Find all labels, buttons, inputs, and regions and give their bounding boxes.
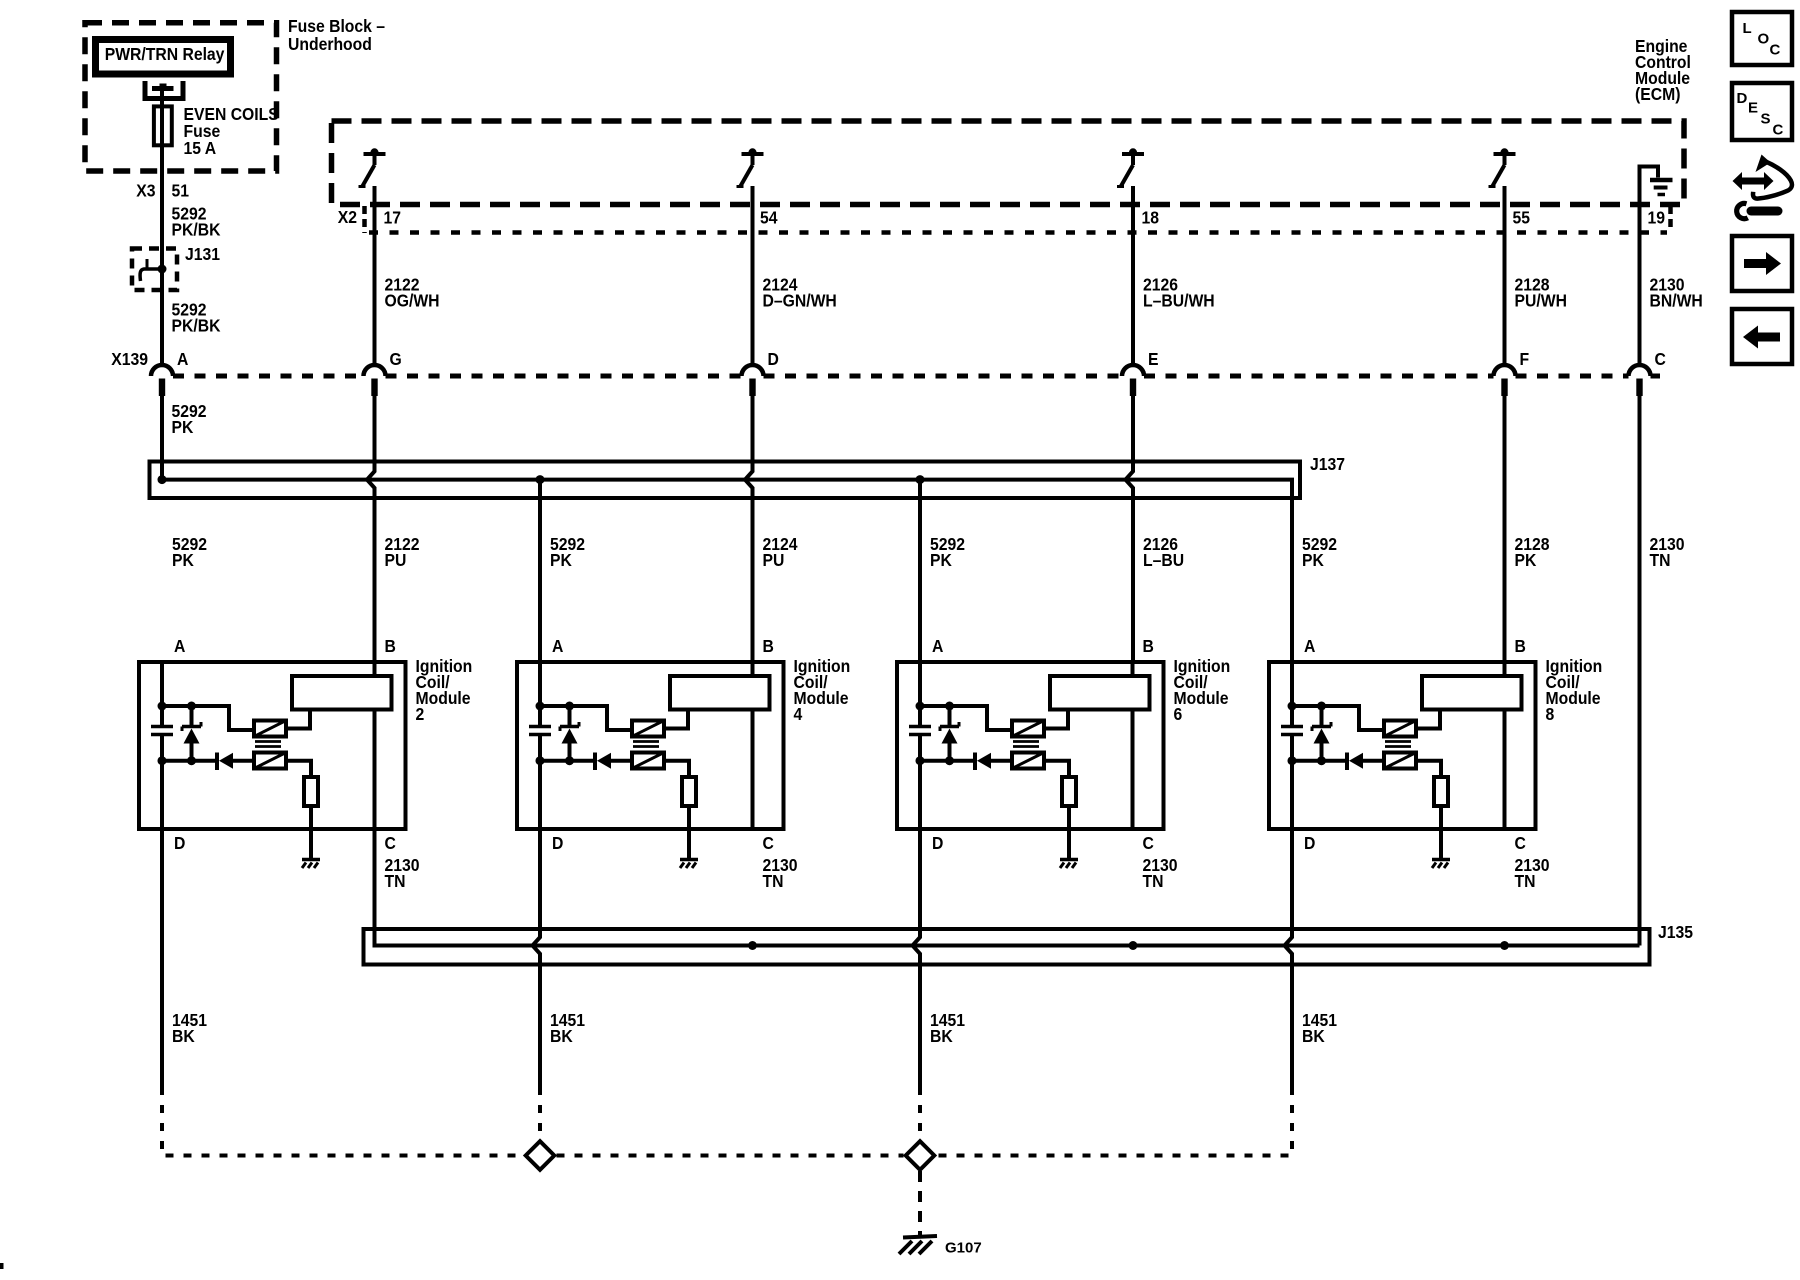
svg-text:PK: PK (930, 550, 952, 570)
svg-text:TN: TN (385, 871, 406, 891)
svg-text:B: B (1515, 636, 1526, 656)
wire pin B stub module 4 (751, 662, 755, 676)
svg-text:B: B (763, 636, 774, 656)
wire box2 to resistor module 4 (664, 761, 689, 777)
svg-text:A: A (174, 636, 185, 656)
dashed wire 1451 BK module 6 to splice diamond (918, 1087, 922, 1140)
svg-text:D–GN/WH: D–GN/WH (763, 291, 837, 311)
wire crossing J137 with hop at x=374.5 (367, 396, 375, 662)
sidebar wrench icon (1751, 207, 1778, 216)
ECM internal ground at pin 19 (1640, 167, 1659, 233)
dashed wire 1451 BK module 2 to splice diamond (162, 1087, 524, 1156)
svg-text:PK/BK: PK/BK (172, 220, 221, 240)
wire resistor to chassis ground module 6 (1067, 806, 1071, 858)
wire crossing J137 with hop at x=1133 (1126, 396, 1134, 662)
wire pin A internal segment module 6 (918, 662, 922, 727)
svg-text:C: C (1770, 42, 1781, 59)
resistor module 4 (682, 777, 696, 806)
wire top rail module 4 (540, 706, 632, 730)
svg-text:A: A (177, 349, 188, 369)
wire 1451 BK pin D module 6 through J135 hop (913, 829, 921, 1087)
svg-text:BK: BK (550, 1026, 573, 1046)
fuse holder clip bracket (145, 81, 183, 99)
wire F 2128 from X139 to module 8 pin B (1503, 396, 1507, 662)
connector X2 row dotted line (369, 230, 1667, 235)
wire 5292 PK X139 pin A through J137 (160, 396, 164, 480)
connector X2 left separator tick (362, 206, 367, 233)
wire pin A internal segment module 2 (160, 662, 164, 727)
svg-text:54: 54 (760, 208, 778, 228)
svg-text:B: B (385, 636, 396, 656)
zener diode module 8 (1320, 706, 1324, 727)
wire coil to pin C module 8 (1503, 710, 1507, 830)
wire 2130 BN/WH from ECM ground to X139 pin C (1638, 232, 1642, 365)
wire 1451 BK pin D module 2 through J135 hop (160, 829, 164, 1087)
sidebar DESC button (1732, 83, 1792, 140)
splice pack J135 box (364, 929, 1650, 965)
resistor module 6 (1062, 777, 1076, 806)
gate bars module 4 (633, 740, 659, 743)
svg-text:PWR/TRN Relay: PWR/TRN Relay (105, 44, 225, 64)
svg-text:Fuse Block –: Fuse Block – (288, 16, 385, 36)
wire crossing J137 with hop at x=752.5 (745, 396, 753, 662)
connector X139 pin F terminal bump (1494, 365, 1516, 376)
svg-text:BK: BK (172, 1026, 195, 1046)
capacitor module 6 (909, 725, 931, 729)
svg-text:X2: X2 (338, 207, 357, 227)
relay K (PWR/TRN Relay) (92, 36, 234, 78)
zener diode module 6 (948, 706, 952, 727)
driver stage box 1 module 8 (1384, 721, 1416, 737)
junction dots module 2 (158, 702, 167, 711)
dashed wire to ground G107 (918, 1171, 922, 1235)
svg-text:PK: PK (172, 550, 194, 570)
svg-text:D: D (1304, 833, 1315, 853)
capacitor module 2 (151, 725, 173, 729)
driver stage box 1 module 4 (632, 721, 664, 737)
svg-text:Underhood: Underhood (288, 34, 372, 54)
svg-text:S: S (1761, 110, 1771, 127)
svg-text:A: A (932, 636, 943, 656)
driver stage box 1 module 2 (254, 721, 286, 737)
junction dot J135 module 8 (1500, 941, 1509, 950)
wire pin A internal segment module 4 (538, 662, 542, 727)
svg-text:TN: TN (1143, 871, 1164, 891)
svg-text:X139: X139 (111, 349, 148, 369)
svg-text:PK: PK (550, 550, 572, 570)
splice diamond right (to G107) (906, 1141, 935, 1170)
chassis ground module 2 (302, 858, 320, 862)
wire top rail module 2 (162, 706, 254, 730)
ignition coil secondary box module 8 (1422, 676, 1522, 710)
connector X139 pin G terminal bump (364, 365, 386, 376)
svg-text:J135: J135 (1658, 922, 1693, 942)
svg-text:O: O (1758, 31, 1770, 48)
connector X139 pin A terminal bump (151, 365, 173, 376)
svg-text:8: 8 (1546, 704, 1555, 724)
connector X139 row dotted line (173, 374, 364, 379)
wire resistor to chassis ground module 4 (687, 806, 691, 858)
wire 5292 PK J137 to module 6 pin A (918, 480, 922, 662)
driver stage box 2 module 4 (632, 753, 664, 769)
svg-text:D: D (552, 833, 563, 853)
splice pack J137 box (150, 462, 1301, 499)
svg-text:E: E (1748, 100, 1758, 117)
diode module 4 (593, 753, 597, 771)
gate bars module 8 (1385, 740, 1411, 743)
svg-text:B: B (1143, 636, 1154, 656)
svg-text:BK: BK (930, 1026, 953, 1046)
connector X139 pin C terminal bump (1629, 365, 1651, 376)
wire 2126 L&#8211;BU/WH from ECM to X139 (1131, 186, 1135, 365)
driver stage box 2 module 6 (1012, 753, 1044, 769)
svg-text:E: E (1148, 349, 1158, 369)
wire 2124 D&#8211;GN/WH from ECM to X139 (751, 186, 755, 365)
ignition coil module 2 box (139, 662, 406, 829)
svg-text:X3: X3 (136, 181, 155, 201)
wire pin B stub module 8 (1503, 662, 1507, 676)
zener diode module 4 (568, 706, 572, 727)
sidebar LOC button (1732, 12, 1792, 65)
gate bars module 2 (255, 740, 281, 743)
wire pin B stub module 2 (373, 662, 377, 676)
svg-text:4: 4 (794, 704, 803, 724)
ignition coil secondary box module 4 (670, 676, 770, 710)
wire 1451 BK pin D module 4 through J135 hop (533, 829, 541, 1087)
svg-text:C: C (763, 833, 774, 853)
svg-text:C: C (1515, 833, 1526, 853)
svg-text:C: C (1655, 349, 1666, 369)
svg-text:G107: G107 (945, 1239, 982, 1256)
wire bottom rail module 8 (1292, 759, 1346, 763)
ignition coil secondary box module 2 (292, 676, 392, 710)
svg-text:PK: PK (1515, 550, 1537, 570)
driver stage box 2 module 8 (1384, 753, 1416, 769)
wire 2128 PU/WH from ECM to X139 (1503, 186, 1507, 365)
svg-text:PU: PU (763, 550, 785, 570)
svg-text:L–BU: L–BU (1143, 550, 1184, 570)
junction dot J137 feed module 6 (916, 475, 925, 484)
svg-text:L–BU/WH: L–BU/WH (1143, 291, 1215, 311)
wire box1 to coil module 4 (664, 710, 688, 729)
capacitor module 4 (529, 725, 551, 729)
resistor module 2 (304, 777, 318, 806)
wire 1451 BK pin D module 8 through J135 hop (1285, 829, 1293, 1087)
svg-text:C: C (1143, 833, 1154, 853)
svg-text:PK/BK: PK/BK (172, 316, 221, 336)
ECM driver switch for pin 54 (742, 152, 764, 156)
svg-text:PK: PK (172, 417, 194, 437)
ignition coil module 8 box (1269, 662, 1536, 829)
gate bars module 6 (1013, 740, 1039, 743)
junction dot J135 module 4 (748, 941, 757, 950)
svg-text:(ECM): (ECM) (1635, 84, 1680, 104)
svg-text:A: A (552, 636, 563, 656)
wire pin A internal segment module 8 (1290, 662, 1294, 727)
junction dots module 6 (916, 702, 925, 711)
svg-text:55: 55 (1513, 208, 1531, 228)
connector X139 pin E terminal bump (1122, 365, 1144, 376)
dashed wire 1451 BK module 4 to splice diamond (538, 1087, 542, 1140)
zener diode module 2 (190, 706, 194, 727)
wire box1 to coil module 6 (1044, 710, 1068, 729)
svg-text:C: C (385, 833, 396, 853)
chassis ground module 8 (1432, 858, 1450, 862)
junction dot J137 at pin A wire (158, 475, 167, 484)
junction dots module 8 (1288, 702, 1297, 711)
diode module 2 (215, 753, 219, 771)
svg-text:D: D (768, 349, 779, 369)
resistor module 8 (1434, 777, 1448, 806)
wire box2 to resistor module 6 (1044, 761, 1069, 777)
svg-text:OG/WH: OG/WH (385, 291, 440, 311)
svg-text:17: 17 (384, 208, 402, 228)
ground G107 (903, 1236, 937, 1238)
svg-text:18: 18 (1142, 208, 1160, 228)
svg-text:C: C (1773, 121, 1784, 138)
capacitor module 8 (1281, 725, 1303, 729)
splice diamond left (526, 1141, 555, 1170)
page artifact bottom-left (0, 1263, 4, 1269)
chassis ground module 6 (1060, 858, 1078, 862)
svg-text:2: 2 (416, 704, 425, 724)
wire box1 to coil module 2 (286, 710, 310, 729)
svg-text:51: 51 (172, 181, 190, 201)
svg-text:J131: J131 (185, 244, 220, 264)
svg-text:BN/WH: BN/WH (1650, 291, 1703, 311)
wire box1 to coil module 8 (1416, 710, 1440, 729)
ECM driver switch for pin 18 (1122, 152, 1144, 156)
diode module 6 (973, 753, 977, 771)
wire 5292 PK J137 to module 4 pin A (538, 480, 542, 662)
dashed wire 1451 BK module 8 to splice diamond (937, 1087, 1293, 1156)
splice J131 symbol (158, 265, 167, 274)
diode module 8 (1345, 753, 1349, 771)
ignition coil secondary box module 6 (1050, 676, 1150, 710)
sidebar back arrow button (1732, 309, 1792, 364)
svg-text:6: 6 (1174, 704, 1183, 724)
svg-text:PU/WH: PU/WH (1515, 291, 1567, 311)
wire bottom rail module 2 (162, 759, 216, 763)
sidebar forward arrow button (1732, 236, 1792, 291)
wire bottom rail module 6 (920, 759, 974, 763)
svg-text:F: F (1520, 349, 1530, 369)
wire coil to pin C module 4 (751, 710, 755, 830)
dashed wire between splice diamonds (557, 1154, 904, 1158)
svg-text:PK: PK (1302, 550, 1324, 570)
junction dot J137 feed module 4 (536, 475, 545, 484)
wire 5292 PK/BK from fuse to X139 pin A (160, 91, 164, 365)
engine control module ECM dashed box (332, 121, 1685, 205)
wire bottom rail module 4 (540, 759, 594, 763)
ignition coil module 6 box (897, 662, 1164, 829)
wire box2 to resistor module 8 (1416, 761, 1441, 777)
driver stage box 2 module 2 (254, 753, 286, 769)
wire resistor to chassis ground module 2 (309, 806, 313, 858)
junction dot J135 module 6 (1129, 941, 1138, 950)
junction dots module 4 (536, 702, 545, 711)
driver stage box 1 module 6 (1012, 721, 1044, 737)
wire coil to pin C module 6 (1131, 710, 1135, 830)
wire pin B stub module 6 (1131, 662, 1135, 676)
fuse F (EVEN COILS Fuse 15 A) (154, 106, 172, 145)
svg-text:J137: J137 (1310, 454, 1345, 474)
wire top rail module 8 (1292, 706, 1384, 730)
wire coil to pin C module 2 (373, 710, 377, 830)
svg-text:TN: TN (763, 871, 784, 891)
ECM driver switch for pin 17 (364, 152, 386, 156)
svg-text:TN: TN (1650, 550, 1671, 570)
svg-text:BK: BK (1302, 1026, 1325, 1046)
splice pack J137 bus wire 5292 PK (162, 480, 1292, 662)
wire box2 to resistor module 2 (286, 761, 311, 777)
fuse block underhood dashed box (85, 23, 277, 171)
svg-text:D: D (174, 833, 185, 853)
svg-text:15 A: 15 A (184, 138, 217, 158)
connector X139 pin D terminal bump (742, 365, 764, 376)
splice J131 dashed box (132, 249, 177, 291)
wire top rail module 6 (920, 706, 1012, 730)
svg-text:19: 19 (1648, 208, 1666, 228)
svg-text:G: G (390, 349, 402, 369)
svg-text:L: L (1743, 20, 1752, 37)
wire C 2130 TN from X139 to J135 (1638, 396, 1642, 946)
wire resistor to chassis ground module 8 (1439, 806, 1443, 858)
sidebar swap/tools icon (1733, 172, 1774, 190)
ignition coil module 4 box (517, 662, 784, 829)
svg-text:D: D (1737, 90, 1748, 107)
svg-text:PU: PU (385, 550, 407, 570)
svg-text:TN: TN (1515, 871, 1536, 891)
splice pack J135 bus wire 2130 TN (375, 710, 1640, 946)
svg-text:D: D (932, 833, 943, 853)
chassis ground module 4 (680, 858, 698, 862)
ECM driver switch for pin 55 (1494, 152, 1516, 156)
wire 2122 OG/WH from ECM to X139 (373, 186, 377, 365)
connector X2 right separator tick (1668, 206, 1673, 231)
svg-text:A: A (1304, 636, 1315, 656)
